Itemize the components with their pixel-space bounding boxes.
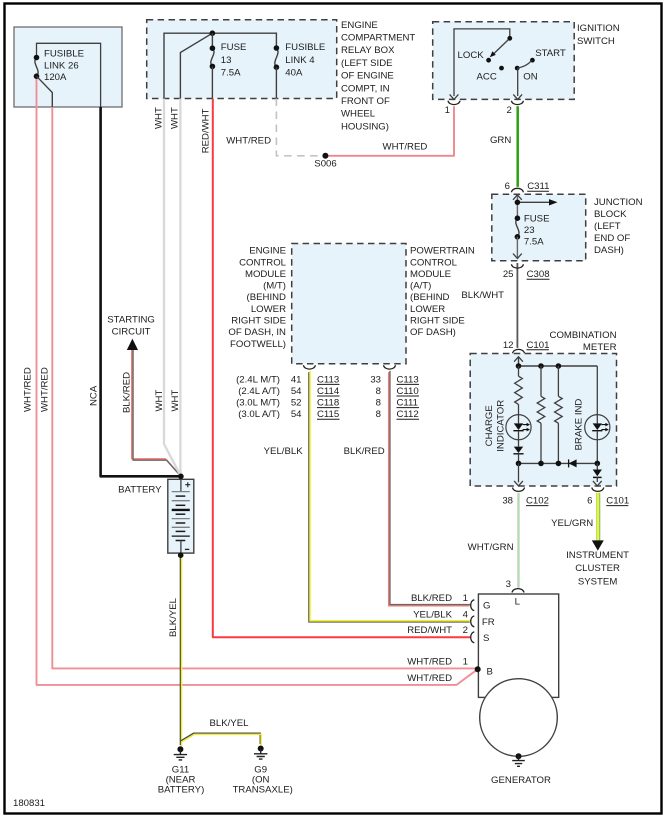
svg-text:FUSE: FUSE — [524, 213, 550, 224]
ground G11 — [177, 746, 183, 752]
connector C102 — [513, 488, 525, 492]
svg-text:(3.0L M/T): (3.0L M/T) — [236, 398, 280, 409]
svg-text:YEL/GRN: YEL/GRN — [551, 518, 593, 529]
svg-text:(A/T): (A/T) — [410, 281, 431, 292]
svg-text:25: 25 — [503, 269, 514, 280]
svg-text:(2.4L A/T): (2.4L A/T) — [238, 386, 280, 397]
junction block box — [492, 194, 586, 261]
svg-text:G: G — [483, 601, 490, 612]
wire GRN wire — [516, 106, 519, 187]
wire RED/WHT wire — [213, 99, 471, 638]
svg-text:POWERTRAIN: POWERTRAIN — [410, 246, 475, 257]
svg-text:BLK/RED: BLK/RED — [344, 446, 385, 457]
svg-text:40A: 40A — [285, 67, 303, 78]
svg-text:BLK/YEL: BLK/YEL — [168, 597, 179, 637]
svg-text:8: 8 — [376, 398, 381, 409]
wire BLK/YEL battery to G11 — [179, 555, 181, 745]
svg-text:FRONT OF: FRONT OF — [341, 96, 390, 107]
meter bottom bus — [519, 462, 598, 464]
svg-text:COMPT, IN: COMPT, IN — [341, 83, 390, 94]
node START — [530, 58, 535, 63]
svg-text:RIGHT SIDE: RIGHT SIDE — [231, 316, 286, 327]
connector ECM (C113/C114/C118/C115) — [303, 365, 315, 369]
fuse 13 symbol — [211, 33, 213, 48]
battery + sign — [185, 482, 190, 487]
svg-text:C113: C113 — [317, 374, 339, 385]
svg-text:BLOCK: BLOCK — [594, 209, 627, 220]
svg-text:S006: S006 — [314, 159, 336, 170]
junction block feed wire — [516, 195, 518, 218]
svg-text:L: L — [515, 597, 521, 608]
ignition switch box — [433, 22, 575, 100]
svg-text:CHARGE: CHARGE — [484, 405, 495, 446]
svg-text:CLUSTER: CLUSTER — [575, 563, 620, 574]
battery - sign — [185, 548, 189, 550]
meter top bus — [519, 365, 598, 367]
node junction on bus — [210, 30, 216, 36]
svg-text:WHT/RED: WHT/RED — [40, 367, 51, 412]
svg-text:RED/WHT: RED/WHT — [407, 625, 452, 636]
svg-text:ACC: ACC — [477, 72, 497, 83]
svg-text:OF DASH, IN: OF DASH, IN — [228, 327, 286, 338]
connector C308 — [511, 264, 523, 268]
svg-text:ON: ON — [523, 72, 537, 83]
svg-text:8: 8 — [376, 409, 381, 420]
svg-text:7.5A: 7.5A — [524, 237, 544, 248]
ground G9 — [258, 746, 264, 752]
svg-text:INSTRUMENT: INSTRUMENT — [566, 550, 629, 561]
svg-text:WHT/GRN: WHT/GRN — [468, 542, 514, 553]
svg-text:WHT: WHT — [169, 107, 180, 129]
combination meter box — [470, 354, 616, 487]
svg-text:CIRCUIT: CIRCUIT — [112, 327, 151, 338]
engine compartment relay box — [147, 20, 337, 99]
diode on bottom bus — [569, 459, 577, 467]
generator circle — [480, 679, 558, 757]
svg-text:LOWER: LOWER — [410, 304, 445, 315]
svg-text:STARTING: STARTING — [107, 315, 155, 326]
svg-text:SYSTEM: SYSTEM — [578, 576, 617, 587]
svg-text:BRAKE IND: BRAKE IND — [574, 399, 585, 451]
svg-text:BATTERY): BATTERY) — [158, 785, 205, 796]
svg-text:YEL/BLK: YEL/BLK — [413, 609, 453, 620]
svg-text:33: 33 — [370, 374, 381, 385]
svg-text:54: 54 — [291, 409, 302, 420]
svg-text:54: 54 — [291, 386, 302, 397]
svg-text:23: 23 — [524, 225, 535, 236]
fusible link 26 box — [14, 27, 122, 107]
connector pin 1 ignition — [448, 101, 460, 105]
arrow starting circuit — [127, 339, 138, 350]
svg-text:YEL/BLK: YEL/BLK — [264, 446, 304, 457]
svg-text:BATTERY: BATTERY — [118, 484, 162, 495]
svg-text:C114: C114 — [317, 386, 340, 397]
arrow to instrument cluster system — [592, 540, 604, 550]
svg-text:B: B — [487, 666, 493, 677]
connector C311 — [511, 188, 523, 192]
svg-text:WHT/RED: WHT/RED — [407, 657, 452, 668]
svg-text:C102: C102 — [526, 496, 549, 507]
svg-text:RED/WHT: RED/WHT — [200, 108, 211, 153]
battery plates — [180, 479, 182, 491]
connector pin 2 ignition — [511, 101, 523, 105]
svg-text:WHT/RED: WHT/RED — [383, 142, 428, 153]
svg-text:GRN: GRN — [490, 135, 511, 146]
svg-text:FUSIBLE: FUSIBLE — [285, 42, 325, 53]
svg-text:SWITCH: SWITCH — [577, 36, 615, 47]
svg-text:RIGHT SIDE: RIGHT SIDE — [410, 316, 465, 327]
svg-text:DASH): DASH) — [594, 245, 624, 256]
svg-text:13: 13 — [221, 55, 232, 66]
svg-text:LOWER: LOWER — [251, 304, 286, 315]
connector PCM (C113/C110/C111/C112) — [384, 365, 396, 369]
generator box — [478, 594, 558, 697]
svg-text:WHT: WHT — [170, 390, 181, 412]
svg-text:FR: FR — [482, 617, 495, 628]
wire WHT wire left — [164, 99, 181, 477]
svg-text:LINK 26: LINK 26 — [44, 60, 79, 71]
relay box bus wire — [164, 33, 276, 98]
svg-text:1: 1 — [463, 657, 468, 668]
svg-text:52: 52 — [291, 398, 302, 409]
ignition switch lever — [493, 38, 510, 54]
wire BLK/RED wire to generator G — [389, 372, 470, 606]
wire BLK/RED to starting circuit — [132, 349, 181, 476]
wire from ON contact down — [517, 68, 519, 96]
svg-text:8: 8 — [376, 386, 381, 397]
svg-text:C118: C118 — [317, 398, 339, 409]
svg-text:BLK/RED: BLK/RED — [411, 593, 452, 604]
svg-text:C308: C308 — [527, 269, 550, 280]
svg-text:FOOTWELL): FOOTWELL) — [230, 339, 286, 350]
battery box — [168, 479, 194, 553]
svg-text:(LEFT SIDE: (LEFT SIDE — [341, 58, 393, 69]
svg-text:C111: C111 — [397, 398, 419, 409]
svg-text:BLK/YEL: BLK/YEL — [210, 718, 250, 729]
ECM/PCM box — [292, 244, 406, 364]
svg-text:CONTROL: CONTROL — [410, 257, 458, 268]
svg-text:CONTROL: CONTROL — [239, 257, 287, 268]
svg-text:2: 2 — [463, 625, 468, 636]
meter feed wire from C101 — [518, 357, 520, 366]
svg-text:(BEHIND: (BEHIND — [247, 292, 287, 303]
svg-text:120A: 120A — [44, 72, 67, 83]
node ACC — [499, 66, 504, 71]
svg-text:C311: C311 — [527, 181, 549, 192]
svg-text:METER: METER — [583, 342, 617, 353]
svg-text:GENERATOR: GENERATOR — [491, 775, 551, 786]
svg-text:WHT: WHT — [154, 390, 165, 412]
wire YEL/BLK wire — [309, 372, 470, 622]
wire diagonal from bus to WHT 2 — [180, 33, 212, 98]
svg-text:HOUSING): HOUSING) — [341, 121, 389, 132]
connector C101 top — [513, 349, 525, 353]
svg-text:WHT/RED: WHT/RED — [226, 135, 271, 146]
wire NCA wire — [101, 107, 181, 476]
svg-text:(3.0L A/T): (3.0L A/T) — [238, 409, 280, 420]
svg-text:OF ENGINE: OF ENGINE — [341, 71, 394, 82]
connector generator L (3) — [512, 589, 524, 593]
svg-text:LOCK: LOCK — [458, 50, 485, 61]
node LOCK — [486, 58, 491, 63]
wire YEL/GRN — [596, 493, 598, 541]
svg-text:C112: C112 — [397, 409, 419, 420]
svg-text:1: 1 — [445, 105, 450, 116]
svg-text:C101: C101 — [606, 496, 629, 507]
svg-text:INDICATOR: INDICATOR — [496, 400, 507, 452]
svg-text:WHT: WHT — [153, 107, 164, 129]
svg-text:C110: C110 — [397, 386, 419, 397]
wire WHT wire right — [179, 99, 182, 477]
svg-text:WHT/RED: WHT/RED — [407, 673, 452, 684]
ground generator — [516, 753, 522, 759]
svg-text:COMPARTMENT: COMPARTMENT — [341, 33, 415, 44]
wire WHT/RED hidden dashed to S006 — [276, 99, 325, 156]
ignition switch pole wire — [454, 29, 510, 96]
svg-text:MODULE: MODULE — [245, 269, 286, 280]
svg-text:180831: 180831 — [13, 798, 45, 809]
svg-text:4: 4 — [463, 609, 469, 620]
svg-text:MODULE: MODULE — [410, 269, 451, 280]
resistor branch 2 — [540, 366, 542, 396]
node battery negative — [178, 552, 184, 558]
svg-text:OF DASH): OF DASH) — [410, 327, 456, 338]
fusible link 26 fuse symbol — [35, 58, 38, 77]
svg-text:C113: C113 — [397, 374, 419, 385]
svg-text:6: 6 — [587, 496, 592, 507]
svg-text:1: 1 — [463, 593, 468, 604]
svg-text:FUSIBLE: FUSIBLE — [44, 49, 84, 60]
double diode under brake branch — [593, 470, 602, 477]
svg-text:(LEFT: (LEFT — [594, 221, 621, 232]
svg-text:WHT/RED: WHT/RED — [23, 367, 34, 412]
connector generator FR — [471, 616, 475, 627]
fuse 23 symbol — [516, 218, 519, 237]
svg-text:WHEEL: WHEEL — [341, 109, 376, 120]
LED light arrows — [523, 425, 528, 430]
connector generator S — [471, 632, 475, 643]
wire ON to START contact arc — [518, 61, 532, 68]
wire fusible link 26 branch diagonal — [37, 76, 53, 107]
fusible link 26 inner label box — [37, 43, 101, 107]
svg-text:6: 6 — [505, 181, 510, 192]
connector generator G — [471, 600, 475, 611]
svg-text:JUNCTION: JUNCTION — [594, 197, 643, 208]
fusible link 4 symbol — [275, 48, 278, 67]
wire WHT/RED from fusible link 26 to generator B (upper run) — [52, 107, 477, 668]
svg-text:41: 41 — [291, 374, 302, 385]
wire WHT/RED wire S006 to ignition switch pin 1 — [325, 106, 454, 156]
svg-text:(M/T): (M/T) — [263, 281, 286, 292]
svg-text:END OF: END OF — [594, 233, 630, 244]
svg-text:NCA: NCA — [89, 385, 100, 406]
node ON — [515, 66, 520, 71]
svg-text:(2.4L M/T): (2.4L M/T) — [236, 374, 280, 385]
svg-text:BLK/WHT: BLK/WHT — [461, 290, 504, 301]
wire BLK/YEL branch to G9 — [181, 733, 261, 744]
junction block branch arrow — [517, 201, 550, 203]
svg-text:12: 12 — [503, 340, 514, 351]
svg-text:S: S — [483, 633, 489, 644]
svg-text:LINK 4: LINK 4 — [285, 55, 315, 66]
svg-text:7.5A: 7.5A — [221, 67, 241, 78]
node S006 — [322, 153, 328, 159]
svg-text:IGNITION: IGNITION — [577, 23, 620, 34]
diode under charge LED — [518, 440, 520, 447]
node battery positive — [178, 474, 184, 480]
charge indicator LED U1 — [506, 415, 531, 440]
wire WHT/RED from fusible link 26 to generator B (lower run) — [37, 76, 478, 685]
meter exit wire 38 — [518, 463, 520, 482]
svg-text:TRANSAXLE): TRANSAXLE) — [233, 785, 293, 796]
svg-text:ENGINE: ENGINE — [341, 20, 378, 31]
connector C101 bottom — [592, 488, 604, 492]
svg-text:C115: C115 — [317, 409, 339, 420]
svg-text:RELAY BOX: RELAY BOX — [341, 45, 395, 56]
svg-text:2: 2 — [506, 105, 511, 116]
node generator B — [475, 666, 481, 672]
svg-text:COMBINATION: COMBINATION — [550, 330, 617, 341]
svg-text:(BEHIND: (BEHIND — [410, 292, 450, 303]
brake ind LED U2 — [596, 366, 598, 415]
svg-text:3: 3 — [506, 579, 511, 590]
wire WHT/GRN — [517, 493, 519, 588]
svg-text:C101: C101 — [527, 340, 550, 351]
wire BLK/WHT wire — [516, 263, 518, 348]
resistor charge indicator branch — [518, 366, 520, 376]
resistor branch 3 — [557, 366, 559, 396]
svg-text:38: 38 — [502, 496, 513, 507]
svg-text:ENGINE: ENGINE — [249, 246, 286, 257]
svg-text:BLK/RED: BLK/RED — [121, 372, 132, 413]
svg-text:FUSE: FUSE — [221, 42, 247, 53]
svg-text:START: START — [535, 48, 566, 59]
